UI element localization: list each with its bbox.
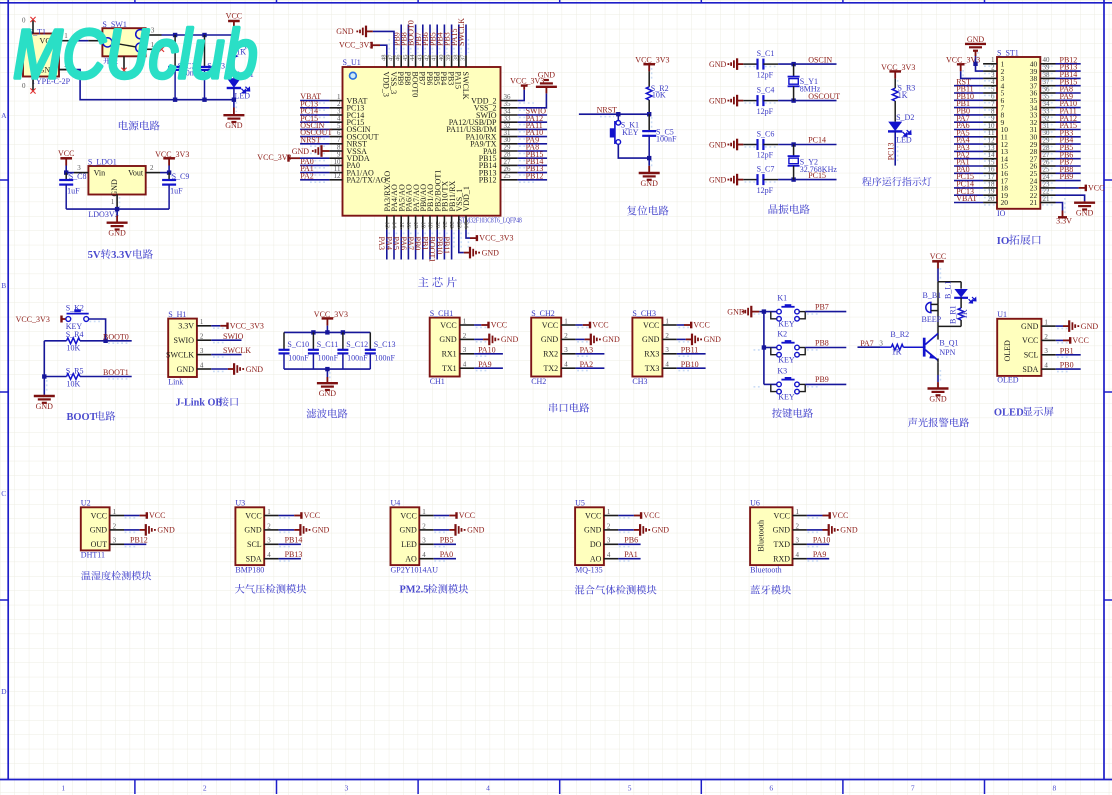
pin 30 ST1 (1040, 136, 1055, 138)
pin 4 S_CH2 TX2 (561, 367, 575, 369)
svg-text:GND: GND (709, 140, 727, 149)
pin 3 SW1 (146, 34, 162, 36)
wire filter bottom rail (284, 368, 370, 370)
svg-text:S_C11: S_C11 (317, 340, 339, 349)
svg-text:IO: IO (997, 235, 1010, 247)
pin 18 ST1 (983, 187, 997, 189)
junction (762, 345, 766, 349)
svg-text:U6: U6 (750, 499, 760, 508)
net label PB1 (420, 237, 429, 251)
wire net PC14 (300, 114, 329, 116)
svg-text:SWCLK: SWCLK (461, 72, 470, 100)
svg-text:SCL: SCL (247, 540, 262, 549)
title 蓝牙模块 (751, 585, 761, 594)
pin 2 U2 GND (110, 529, 124, 531)
title 声光报警电路 (908, 418, 917, 427)
svg-text:TX2: TX2 (544, 364, 559, 373)
wire net PB9 (1056, 180, 1081, 182)
svg-text:3: 3 (113, 537, 117, 545)
wire net PB13 (279, 558, 301, 560)
wire net PB4 (443, 25, 445, 56)
power port VCC U2 (124, 515, 140, 517)
pin 15 ST1 (983, 165, 997, 167)
svg-text:GND: GND (399, 526, 417, 535)
svg-text:20: 20 (1001, 198, 1009, 207)
pin 1 U2 VCC (110, 515, 124, 517)
wire net OSCIN (300, 128, 329, 130)
resistor S_R3 1K (892, 88, 898, 101)
header S_CH2 (531, 318, 561, 377)
capacitor S_C3 1uF (204, 35, 206, 67)
svg-text:39: 39 (445, 55, 452, 62)
wire net PB11 (954, 92, 983, 94)
wire net PA9 (518, 143, 547, 145)
ground GND alarm (937, 362, 939, 375)
wire net PB10 (443, 230, 445, 260)
pin 29 U1 PA8 (501, 150, 518, 152)
svg-text:20: 20 (434, 222, 441, 229)
svg-text:VCC: VCC (693, 321, 709, 330)
svg-text:KEY: KEY (778, 392, 795, 401)
ground GND U5 (618, 529, 634, 531)
pin 1 S_CH3 VCC (662, 324, 676, 326)
svg-text:GND: GND (709, 175, 727, 184)
wire net PB0 (954, 114, 983, 116)
pin 38 U1 PA15 (458, 55, 460, 67)
svg-text:23: 23 (455, 222, 462, 229)
svg-text:RX2: RX2 (543, 350, 558, 359)
wire net PB0 (422, 230, 424, 260)
header S_ST1 IO (997, 57, 1040, 209)
svg-text:CH2: CH2 (531, 377, 546, 386)
svg-text:B_Q1: B_Q1 (939, 339, 958, 348)
wire bottom return rail (59, 69, 74, 71)
LED S_D2 (888, 122, 902, 132)
wire net PA6 (954, 129, 983, 131)
pin 2 ST1 (983, 70, 997, 72)
pin 3 U2 OUT (110, 543, 124, 545)
module U6 Bluetooth (750, 507, 792, 565)
wire net PB5 (1056, 150, 1081, 152)
pin 1 U4 VCC (419, 515, 433, 517)
pin 27 ST1 (1040, 158, 1055, 160)
svg-text:1: 1 (422, 508, 426, 516)
ground GND U6 (807, 529, 823, 531)
svg-text:VCC_3V3: VCC_3V3 (946, 55, 980, 64)
wire net PB13 (518, 172, 547, 174)
pin 17 U1 PA7/AO (415, 216, 417, 230)
pin 7 U1 NRST (329, 143, 342, 145)
wire key to gnd rail (618, 144, 649, 158)
LED S_D1 (227, 78, 241, 88)
pin 24 U1 VDD_1 (465, 216, 467, 230)
wire net PB12 (518, 179, 547, 181)
ground GND ST1 pin22 (1056, 195, 1085, 201)
crystal S_Y1 8MHz (793, 64, 795, 77)
wire net PB11 (451, 230, 453, 260)
pin 47 U1 VSS_3 (393, 55, 395, 67)
svg-text:16: 16 (405, 222, 412, 229)
pin 1 U6 VCC (793, 515, 807, 517)
svg-text:32.768KHz: 32.768KHz (800, 165, 838, 174)
wire net PA8 (518, 150, 547, 152)
pin 4 U5 AO (604, 558, 618, 560)
svg-text:VCC_3V3: VCC_3V3 (155, 150, 189, 159)
wire net PA2 (300, 179, 329, 181)
junction (791, 142, 795, 146)
junction (973, 62, 977, 66)
pin 3 S_CH2 RX2 (561, 353, 575, 355)
svg-text:NRST: NRST (300, 135, 321, 144)
pin 13 ST1 (983, 150, 997, 152)
pin 32 ST1 (1040, 121, 1055, 123)
svg-text:SCL: SCL (1024, 351, 1039, 360)
svg-text:1: 1 (463, 317, 467, 325)
pin 2 LDO (146, 172, 160, 174)
wire net NRST (300, 143, 329, 145)
svg-text:GND: GND (90, 526, 108, 535)
svg-text:PA9: PA9 (813, 550, 827, 559)
svg-text:SDA: SDA (246, 555, 262, 564)
title 程序运行指示灯 (862, 177, 872, 186)
svg-text:GND: GND (709, 60, 727, 69)
pin 2 T1 (59, 69, 74, 71)
svg-text:K1: K1 (777, 294, 787, 303)
wire alarm top tee (938, 281, 961, 283)
power port VCC_3V3 ldo out (163, 157, 175, 160)
pin 36 U1 VDD_2 (501, 100, 518, 102)
svg-text:38: 38 (452, 55, 459, 62)
svg-text:3: 3 (267, 537, 271, 545)
svg-text:PB11: PB11 (442, 237, 451, 255)
svg-text:B: B (1, 281, 6, 290)
ground GND S_CH3 (677, 338, 686, 340)
svg-text:GND: GND (704, 335, 722, 344)
svg-text:MQ-135: MQ-135 (575, 565, 603, 574)
svg-text:22: 22 (448, 222, 455, 229)
svg-text:DHT11: DHT11 (81, 551, 105, 560)
pin 10 ST1 (983, 129, 997, 131)
title 滤波电路 (307, 409, 317, 419)
pin 2 U6 GND (793, 529, 807, 531)
wire net PA12 (1056, 121, 1081, 123)
pin 31 U1 PA10/RX (501, 136, 518, 138)
pin 20 U1 PB2/BOOT1 (436, 216, 438, 230)
svg-text:2: 2 (564, 332, 568, 340)
wire reset top (648, 71, 650, 86)
wire net PA4 (393, 230, 395, 260)
pin 23 U1 VSS_1 (458, 216, 460, 230)
pin 45 U1 PB8 (407, 55, 409, 67)
svg-text:OLED: OLED (1003, 340, 1012, 362)
pin 43 U1 PB7 (422, 55, 424, 67)
svg-text:2: 2 (200, 333, 204, 341)
wire net PA9 (474, 367, 503, 369)
svg-text:Link: Link (168, 378, 183, 387)
svg-text:3: 3 (463, 346, 467, 354)
svg-text:1: 1 (665, 317, 669, 325)
power port VCC_3V3 filter (322, 317, 334, 320)
svg-text:AO: AO (590, 555, 602, 564)
pin 16 ST1 (983, 172, 997, 174)
svg-text:VCC_3V3: VCC_3V3 (339, 41, 373, 50)
svg-text:GND: GND (225, 121, 243, 130)
pin 1 ST1 (983, 63, 997, 65)
capacitor S_C4 12pF (743, 100, 757, 102)
wire key to boot0 (89, 319, 106, 341)
svg-text:4: 4 (564, 361, 568, 369)
svg-text:VCC_3V3: VCC_3V3 (16, 315, 50, 324)
junction (647, 112, 651, 116)
pin 25 U1 PB12 (501, 179, 518, 181)
wire net OSCOUT (300, 136, 329, 138)
wire net PB14 (518, 164, 547, 166)
wire net PA0 (300, 164, 329, 166)
svg-text:VCC: VCC (58, 149, 74, 158)
wire net PB5 (434, 543, 456, 545)
svg-text:SWCLK: SWCLK (223, 346, 251, 355)
svg-text:GND: GND (652, 526, 670, 535)
wire net PA5 (400, 230, 402, 260)
wire net PB8 (805, 347, 846, 349)
svg-text:RX1: RX1 (442, 350, 457, 359)
svg-text:PA10: PA10 (478, 345, 496, 354)
wire net PB0 (1056, 368, 1081, 370)
wire net PB1 (429, 230, 431, 260)
svg-text:VCC: VCC (774, 511, 790, 520)
pin 5 U1 OSCIN (329, 128, 342, 130)
pin 26 ST1 (1040, 165, 1055, 167)
wire net PA10 (474, 353, 503, 355)
pin 42 U1 PB6 (429, 55, 431, 67)
svg-text:10K: 10K (67, 379, 81, 388)
pin 35 U1 VSS_2 (501, 107, 518, 109)
power port VCC OLED (1056, 339, 1063, 341)
module U5 MQ-135 (575, 507, 604, 565)
ground GND S_CH2 (576, 338, 585, 340)
svg-text:BOOT1: BOOT1 (103, 368, 129, 377)
pin 30 U1 PA9/TX (501, 143, 518, 145)
svg-text:14: 14 (391, 222, 398, 229)
svg-text:CH3: CH3 (632, 377, 647, 386)
pin 15 U1 PA5/AO (400, 216, 402, 230)
pin 6 ST1 (983, 99, 997, 101)
svg-text:S_LDO1: S_LDO1 (88, 157, 117, 166)
wire T1 pin1 to SW1 (74, 40, 88, 42)
pin 3 H1 SWCLK (197, 354, 211, 356)
ground GND boot (43, 395, 45, 396)
svg-text:12: 12 (334, 172, 342, 180)
svg-text:GND: GND (36, 402, 54, 411)
ground GND U4 (434, 529, 450, 531)
resistor S_R2 10K (646, 87, 652, 100)
svg-text:GP2Y1014AU: GP2Y1014AU (391, 565, 439, 574)
svg-text:GND: GND (840, 526, 858, 535)
capacitor S_C12 100nF (342, 332, 344, 349)
pin 5 ST1 (983, 92, 997, 94)
pin 28 ST1 (1040, 150, 1055, 152)
svg-text:25: 25 (504, 172, 512, 180)
svg-text:8MHz: 8MHz (800, 85, 821, 94)
wire net PC13 (300, 107, 329, 109)
svg-text:1: 1 (111, 198, 115, 206)
regulator S_LDO1 (88, 166, 145, 195)
svg-text:3: 3 (607, 537, 611, 545)
svg-text:4: 4 (607, 551, 611, 559)
svg-text:GND: GND (292, 147, 310, 156)
wire net PB6 (1056, 158, 1081, 160)
pin 1 H1 3.3V (197, 325, 211, 327)
svg-text:S_C7: S_C7 (757, 164, 775, 173)
pin 13 U1 PA3/RX/AO (386, 216, 388, 230)
pin 4 U6 RXD (793, 558, 807, 560)
wire NRST (579, 113, 649, 115)
power port 3.3V ST1 pin21 (1056, 203, 1063, 211)
svg-text:2: 2 (150, 164, 154, 172)
svg-text:15: 15 (398, 222, 405, 229)
transistor B_Q1 NPN (923, 338, 926, 357)
capacitor S_C11 100nF (312, 332, 314, 349)
svg-text:VCC_3V3: VCC_3V3 (314, 310, 348, 319)
pin 8 U1 VSSA (329, 150, 342, 152)
power port VCC ldo (60, 157, 72, 160)
svg-text:K3: K3 (777, 366, 787, 375)
pin 1 U1 VBAT (329, 100, 342, 102)
ground GND filter (326, 369, 328, 377)
wire net PB8 (407, 25, 409, 56)
capacitor S_C6 12pF (743, 144, 757, 146)
svg-text:PB14: PB14 (285, 536, 303, 545)
svg-text:GND: GND (246, 365, 264, 374)
pin 3 S_CH3 RX3 (662, 353, 676, 355)
capacitor S_C9 1uF (168, 173, 170, 180)
svg-text:VCC: VCC (491, 321, 507, 330)
svg-text:U3: U3 (235, 499, 245, 508)
junction (42, 374, 46, 378)
svg-text:4: 4 (463, 361, 467, 369)
svg-text:OLED: OLED (997, 375, 1019, 384)
svg-text:VCC: VCC (400, 511, 416, 520)
svg-text:BMP180: BMP180 (235, 565, 264, 574)
wire net PA1 (300, 172, 329, 174)
junction (762, 309, 766, 313)
svg-text:2: 2 (267, 522, 271, 530)
svg-text:VDD_1: VDD_1 (462, 186, 471, 211)
net label BOOT0 (407, 20, 416, 46)
svg-text:BEEP: BEEP (922, 315, 942, 324)
svg-text:1K: 1K (898, 91, 908, 100)
pin 3 OLED SCL (1041, 354, 1055, 356)
svg-text:SWIO: SWIO (223, 332, 244, 341)
header S_CH1 (430, 318, 460, 377)
svg-text:GND: GND (108, 229, 126, 238)
svg-text:7: 7 (911, 784, 915, 793)
pin 33 U1 PA12/USB/DP (501, 121, 518, 123)
wire net PA11 (518, 128, 547, 130)
wire net VBAT (300, 100, 329, 102)
svg-text:1: 1 (796, 508, 800, 516)
wire net PA9 (807, 558, 829, 560)
svg-text:SWIO: SWIO (174, 336, 195, 345)
svg-text:GND: GND (1021, 322, 1039, 331)
svg-text:B_B1: B_B1 (923, 291, 942, 300)
pin 2 OLED VCC (1041, 339, 1055, 341)
svg-text:CH1: CH1 (430, 377, 445, 386)
svg-text:Vin: Vin (94, 168, 106, 177)
svg-text:VCC: VCC (245, 511, 261, 520)
svg-text:A: A (1, 111, 7, 120)
display U1 OLED (997, 319, 1041, 376)
net label BOOT1 (428, 237, 437, 263)
svg-text:1: 1 (200, 318, 204, 326)
pin 1 S_CH2 VCC (561, 324, 575, 326)
wire net SWCLK (465, 25, 467, 56)
wire net OSCIN (778, 63, 836, 65)
power port VCC_3V3 U1 pin24 (466, 230, 470, 239)
wire net PB3 (451, 25, 453, 56)
svg-text:GND: GND (1081, 322, 1099, 331)
power port VCC U6 (807, 515, 823, 517)
capacitor S_C1 12pF (743, 63, 757, 65)
wire net PA10 (518, 136, 547, 138)
pin 34 U1 SWIO (501, 114, 518, 116)
net label PC13 vertical (887, 143, 896, 161)
svg-text:VCC_3V3: VCC_3V3 (230, 322, 264, 331)
wire net PA5 (954, 136, 983, 138)
svg-text:8: 8 (1053, 784, 1057, 793)
svg-text:GND: GND (967, 35, 985, 44)
wire net PC14 (778, 144, 836, 146)
pin 3 ST1 (983, 77, 997, 79)
capacitor S_C13 100nF (369, 332, 371, 349)
power port VCC_3V3 indicator (889, 70, 901, 73)
svg-text:PB9: PB9 (1060, 172, 1074, 181)
wire net PA7 (415, 230, 417, 260)
svg-text:RX3: RX3 (644, 350, 659, 359)
svg-text:3: 3 (77, 164, 81, 172)
no-ERC mark T1 top (30, 17, 35, 22)
svg-text:20: 20 (988, 195, 996, 203)
svg-text:GND: GND (642, 335, 660, 344)
svg-text:4: 4 (422, 551, 426, 559)
svg-text:KEY: KEY (778, 356, 795, 365)
pin 33 ST1 (1040, 114, 1055, 116)
svg-text:U4: U4 (391, 499, 401, 508)
svg-text:LED: LED (896, 136, 912, 145)
wire net PB9 (805, 383, 846, 385)
svg-text:PC14: PC14 (808, 136, 826, 145)
wire net BOOT1 (436, 230, 438, 260)
net label PB9 (392, 32, 401, 46)
pin 44 U1 BOOT0 (415, 55, 417, 67)
wire boot left vertical (43, 341, 45, 395)
svg-text:PB9: PB9 (815, 375, 829, 384)
title 温湿度检测模块 (81, 571, 91, 580)
junction (647, 156, 651, 160)
wire net PC13 (954, 194, 983, 196)
pin 3 U4 LED (419, 543, 433, 545)
no-ERC mark T1 bottom (30, 88, 35, 93)
pin 3 U1 PC14 (329, 114, 342, 116)
wire net PB13 (1056, 70, 1081, 72)
ground GND U1 pin8 (322, 150, 330, 152)
svg-text:45: 45 (402, 55, 409, 62)
svg-text:17: 17 (412, 222, 419, 229)
wire VCC rail top (162, 34, 234, 36)
junction (173, 33, 177, 37)
svg-text:3: 3 (564, 346, 568, 354)
svg-text:6: 6 (769, 784, 773, 793)
